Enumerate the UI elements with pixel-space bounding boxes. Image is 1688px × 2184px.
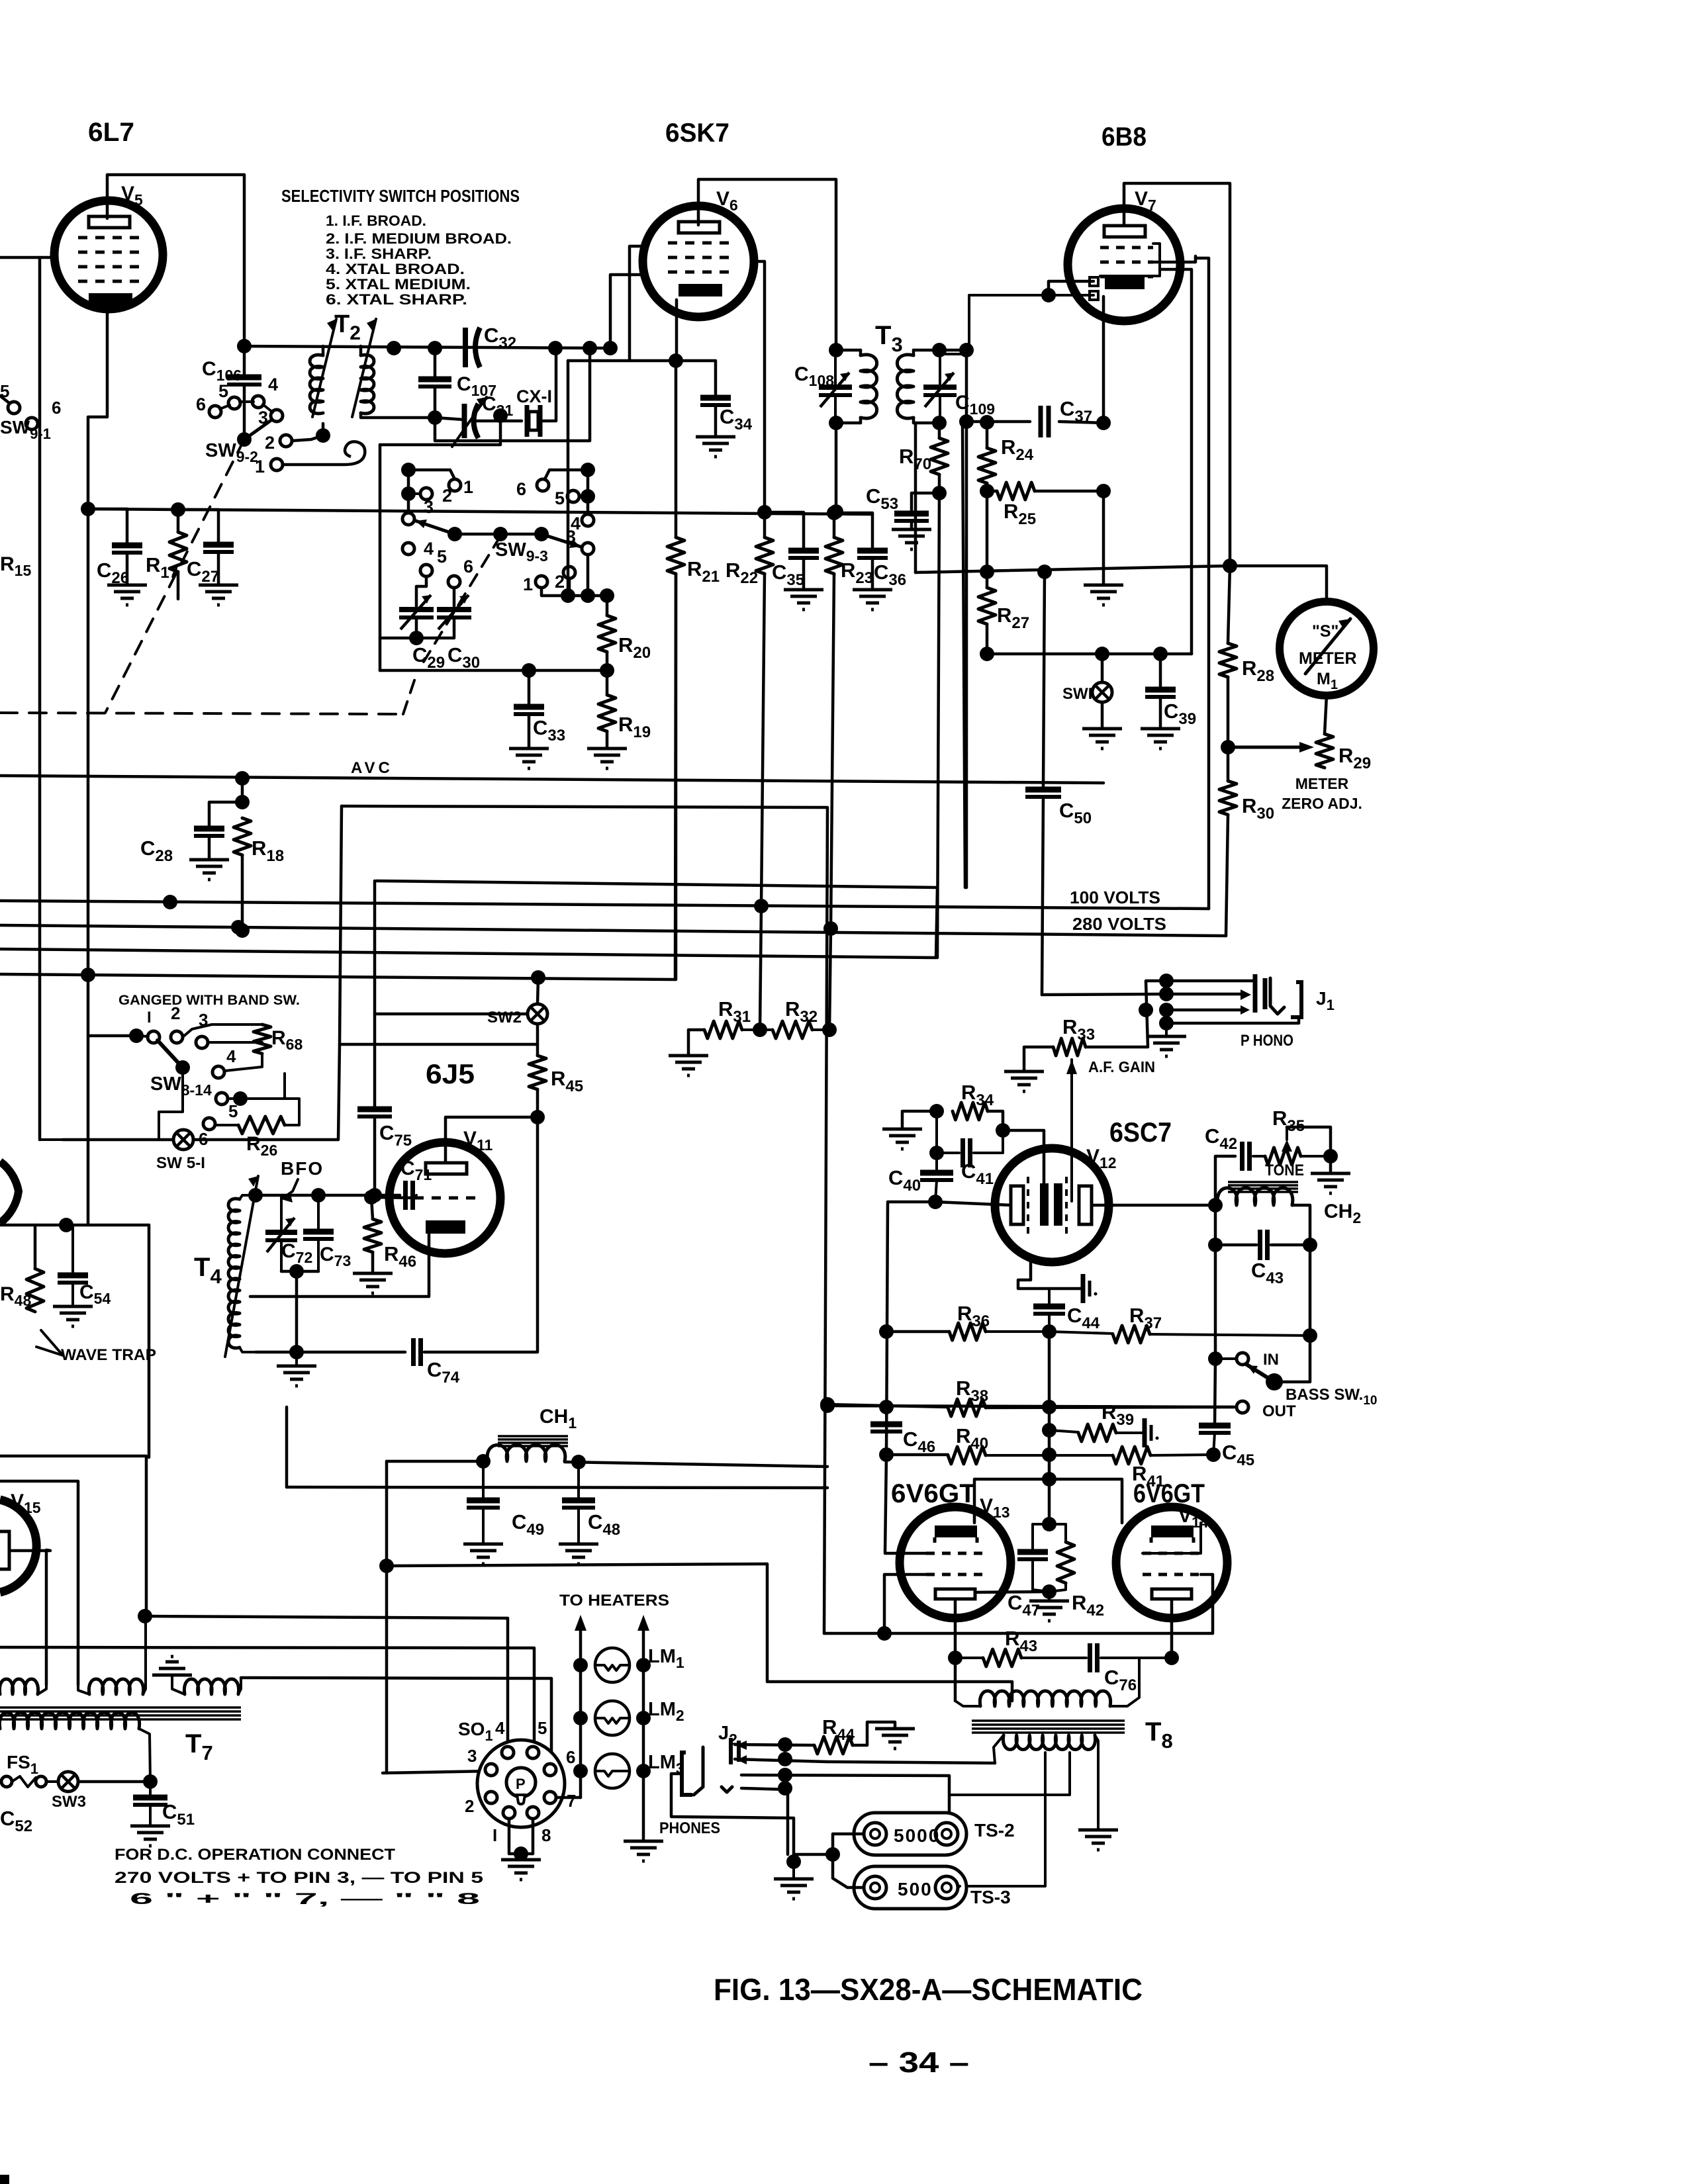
wire screens bus (824, 1574, 1213, 1633)
svg-text:ZERO ADJ.: ZERO ADJ. (1282, 795, 1362, 812)
SW9-3 armature right (541, 534, 581, 547)
svg-text:5: 5 (437, 547, 447, 567)
node T3 secondary top (932, 343, 947, 357)
SW9-3 armature left (416, 521, 455, 534)
V7 diode plates (1090, 277, 1098, 286)
wire SW5-1 right to B+ riser (193, 1044, 538, 1140)
wire V5 cathode down (88, 309, 107, 509)
wire R33 right to phono (1086, 981, 1166, 1047)
choke CH1 core (498, 1435, 568, 1437)
choke CH2 core (1228, 1181, 1298, 1183)
switch SW9-3 L contact 2 (420, 488, 432, 500)
wire SO1 pin1 pin8 to ground (509, 1819, 533, 1854)
svg-text:6: 6 (52, 398, 61, 418)
node C46 bottom (879, 1447, 894, 1462)
wire R17 bottom (177, 572, 180, 599)
ground T7 winding3 (152, 1657, 192, 1675)
capacitor C40 (929, 1146, 944, 1160)
svg-text:2: 2 (265, 433, 275, 453)
meter needle (1305, 619, 1350, 674)
wire R22 bottom through 100V bus to R31 R32 node (760, 574, 765, 1030)
terminal strip TS-2 (854, 1813, 966, 1855)
svg-text:270 VOLTS + TO PIN 3: 270 VOLTS + TO PIN 3, — TO PIN 5 (115, 1869, 483, 1887)
wire R21 top lead (675, 361, 678, 537)
terminal strip TS-3 (854, 1866, 966, 1909)
wire R68 top to contact2 (183, 1024, 262, 1037)
switch SW9-3 L contact 1 (449, 479, 461, 491)
lamp LM2 (573, 1711, 588, 1725)
wire CH1 to B+ riser (565, 1462, 827, 1467)
resistor R35 tone pot (1253, 1155, 1265, 1158)
lamp LM3 (573, 1764, 588, 1778)
switch SW9-2 contact 2 (280, 435, 292, 447)
ground C49 (463, 1544, 503, 1564)
node C31 left (428, 410, 442, 425)
transformer T7 primary coil (0, 1712, 140, 1729)
capacitor C27 (203, 542, 234, 548)
wire mystery y2247 (287, 1487, 827, 1488)
capacitor C49 (482, 1461, 485, 1498)
wire R46 bottom (371, 1252, 375, 1273)
wire to TS-3 left (833, 1854, 864, 1888)
wire R35 wiper to end (1287, 1127, 1331, 1156)
dashed gang line SW9-3 (424, 536, 500, 662)
wire C75 riser (373, 881, 377, 1107)
svg-text:BFO: BFO (281, 1158, 324, 1179)
phono jack J1 lines (1166, 979, 1255, 983)
wire T4 bottom line (256, 1351, 405, 1354)
dashed gang line SW9-2 (105, 439, 244, 713)
resistor R25 (997, 482, 1035, 500)
wire R70 bottom (938, 475, 941, 493)
ground C51 (130, 1826, 170, 1846)
node R27 bottom (980, 647, 994, 661)
wire C34 to ground (714, 405, 718, 437)
wire V13 cathode to C47 (975, 1592, 1049, 1592)
svg-text:TS-3: TS-3 (970, 1887, 1011, 1907)
wire T8 primary right (1110, 1658, 1139, 1706)
svg-text:1: 1 (463, 477, 473, 497)
node C47 top (1042, 1517, 1056, 1531)
node C39 (1153, 647, 1168, 661)
wire C31 lead left (435, 418, 463, 420)
svg-text:CX-I: CX-I (516, 387, 552, 406)
wire V11 cathode down (250, 1234, 429, 1297)
wire V12 left grid from R34 node (1003, 1130, 1044, 1183)
ground heater (624, 1841, 663, 1861)
switch SW9-3 R contact 4 (582, 514, 594, 526)
node R43 left (948, 1651, 962, 1665)
wire B+ riser x514 (340, 806, 342, 1044)
svg-text:3. I.F. SHARP.: 3. I.F. SHARP. (326, 246, 432, 262)
node R32 right (822, 1023, 837, 1037)
wire V12 left plate to C40 line (935, 1202, 1011, 1205)
switch SW9-3 L contact 4 (402, 543, 414, 555)
ground C47 R42 (1029, 1601, 1069, 1621)
wire V6 cathode down (675, 300, 679, 361)
wire SW8-14 box to SW5-1 (159, 1068, 183, 1140)
wire V6 suppressor to R21 (630, 246, 676, 361)
ground C26 (107, 585, 147, 605)
ground C36 (853, 590, 892, 610)
wire bus4 y1474 (0, 574, 676, 979)
wire R17 top (177, 510, 180, 532)
tube V11 (6J5) triode (389, 1142, 500, 1253)
wire x1460 down to bus (965, 350, 968, 887)
ground phono (1147, 1036, 1186, 1056)
wire T3 sec bottom to R70 (938, 423, 941, 438)
node R35 right (1323, 1149, 1338, 1163)
ground C33 (509, 749, 549, 768)
node R22 top (757, 505, 772, 520)
variable capacitor C29 (399, 607, 434, 612)
node C43 right (1303, 1238, 1317, 1252)
node C33 top (522, 663, 536, 678)
wire T2 secondary bottom to C31 line (361, 413, 435, 418)
wire C50 bottom (1042, 797, 1043, 995)
wire V7 screen to 100V bus riser (1153, 256, 1196, 262)
svg-text:2: 2 (442, 486, 452, 506)
wire OUT line (827, 1406, 1234, 1407)
wire C30 bottom (416, 617, 454, 638)
heater line right (642, 1631, 645, 1841)
svg-text:1. I.F. BROAD.: 1. I.F. BROAD. (326, 212, 426, 229)
capacitor C37 (1039, 406, 1043, 437)
switch SW9-1 contact 6 (26, 418, 38, 430)
ground C54 (53, 1306, 93, 1326)
wire plate feed split (974, 1479, 1049, 1523)
switch SW9-3 R contact 2 (563, 567, 575, 578)
wire V6 plate cap up and right to T3 (698, 179, 836, 350)
wire bus y1331 (C75 B+) (377, 881, 937, 887)
svg-text:6 " + ": 6 " + " " 7, — " " 8 (130, 1890, 480, 1908)
T3 primary loop (836, 349, 861, 352)
wire R26 right end up (285, 1099, 299, 1125)
wire SW5-1 left (63, 1138, 173, 1142)
node C37 right (1096, 416, 1111, 430)
node V12 plate out (1208, 1198, 1223, 1212)
svg-text:4: 4 (495, 1718, 505, 1738)
capacitor C41 (935, 1111, 938, 1153)
wire V15 box inner (0, 1481, 78, 1685)
switch SW8-14 contact 3 (196, 1036, 208, 1048)
capacitor C107 (434, 348, 437, 377)
svg-text:SWI: SWI (1062, 685, 1092, 703)
wire bus3 y1434 (0, 887, 937, 958)
wire C31 to CX-1 (475, 420, 522, 423)
transformer T3 primary coil (861, 355, 877, 418)
lamp SW2 (528, 1004, 547, 1024)
resistor R27 (978, 588, 996, 624)
wire rectifier out to T8 region (387, 1564, 1012, 1701)
node SW9-3 L top (401, 463, 416, 477)
transformer T7 core (0, 1706, 241, 1709)
resistor R17 (169, 532, 187, 572)
SW9-2 armature (237, 432, 252, 447)
node phones ground (786, 1854, 801, 1869)
capacitor C43 (1258, 1230, 1262, 1260)
capacitor C51 (149, 1782, 152, 1796)
wire CH2 right (1292, 1205, 1310, 1249)
node C49 (476, 1454, 491, 1469)
switch SW9-1 contact 5 (8, 402, 20, 414)
resistor R20 (598, 615, 616, 652)
wire to C34 (677, 361, 716, 396)
svg-text:OUT: OUT (1262, 1402, 1296, 1420)
switch SW9-3 L contact 3 (402, 513, 414, 525)
wire V6 grid riser (610, 275, 643, 348)
wire C53 node down to bus3 (937, 493, 939, 958)
wire T3 primary bottom down (835, 423, 838, 512)
wire SW2 left stub (375, 1013, 528, 1016)
wire contact5L to C29 (416, 576, 426, 606)
svg-text:TONE: TONE (1265, 1161, 1304, 1179)
svg-text:500: 500 (898, 1879, 933, 1899)
wire R33 left to ground (1024, 1047, 1053, 1071)
transformer T2 secondary coil (361, 355, 374, 414)
wire V7 cathode down to C37 line (1102, 296, 1105, 423)
wire to TS-2 left (833, 1834, 864, 1854)
wire R25 to cathode line (1035, 490, 1103, 493)
V15 plate rect (0, 1531, 9, 1569)
wire y639 tap down to R27 wire (914, 423, 917, 572)
svg-text:SW3: SW3 (52, 1793, 86, 1811)
capacitor C47 (1017, 1549, 1048, 1555)
transformer T7 secondary winding 2 (78, 1685, 89, 1694)
node SW2 tap (531, 970, 545, 985)
wire V5 plate cap to top rail (107, 175, 244, 346)
wave trap pointer (36, 1330, 63, 1355)
wire c3R down (586, 555, 590, 596)
wire R68 bottom to contact4 (225, 1054, 262, 1071)
wire V6 cathode bus down to SW9-3 (567, 361, 570, 596)
switch SW9-3 R contact 5 (567, 490, 579, 502)
wire SW8-14 feed from left (88, 1034, 136, 1038)
wire to contact1L (408, 470, 455, 479)
wire V7 grid leak riser x1800 (1160, 269, 1192, 654)
chassis V12 cathode (1081, 1274, 1086, 1303)
svg-text:FOR D.C. OPERATION CONNE: FOR D.C. OPERATION CONNECT (115, 1846, 395, 1864)
wire bass arm to R41 right (1274, 1336, 1310, 1382)
wire 280V bus (0, 925, 1226, 936)
resistor R42 (1057, 1542, 1074, 1583)
svg-text:IN: IN (1263, 1351, 1279, 1369)
wire down to T4 bottom (295, 1271, 299, 1352)
capacitor C35 (788, 548, 819, 554)
dashed gang bus (0, 713, 403, 714)
wire box from contact2 region (380, 416, 500, 445)
wire R18 bottom to 280V (241, 855, 244, 931)
wire V12 right plate out (1092, 1204, 1215, 1207)
svg-text:GANGED WITH BAND SW.: GANGED WITH BAND SW. (118, 993, 300, 1008)
node R17 top (171, 502, 185, 517)
wire T2 top rail (244, 346, 610, 348)
capacitor C44 (1048, 1316, 1051, 1332)
wire V6 control grid right down (753, 261, 765, 512)
node R20 bottom (600, 663, 614, 678)
svg-text:2: 2 (171, 1003, 180, 1023)
node C45 bottom (1206, 1447, 1221, 1462)
wire R24 node down to R27 (986, 491, 989, 572)
switch SW9-2 contact 1 (271, 459, 283, 471)
node C44 (1042, 1324, 1056, 1339)
tube V5 (6L7) (54, 201, 163, 309)
wire pin3 line (383, 1771, 491, 1773)
capacitor C54 (71, 1225, 74, 1273)
node C107 top (428, 341, 442, 355)
lamp SW1 (1092, 682, 1112, 702)
svg-text:WAVE TRAP: WAVE TRAP (61, 1346, 156, 1364)
node 280V x360 (231, 920, 246, 934)
svg-text:6J5: 6J5 (426, 1058, 475, 1089)
svg-text:100 VOLTS: 100 VOLTS (1070, 887, 1160, 907)
wire R30 top (1227, 747, 1230, 781)
switch SW9-3 L contact 6 (448, 576, 460, 588)
svg-text:A.F. GAIN: A.F. GAIN (1088, 1058, 1155, 1075)
wire B+ bus y1218 (342, 806, 827, 1633)
wire V11 grid left (371, 1197, 414, 1198)
wire V7 cathode line to ground (1102, 491, 1105, 585)
node C47 bottom (1042, 1584, 1056, 1599)
switch SW9-2 contact 5 (228, 397, 240, 409)
tube V12 (6SC7) (995, 1148, 1109, 1262)
transformer T8 secondary coil (994, 1735, 1004, 1763)
transformer T7 secondary winding 1 (0, 1679, 38, 1694)
node SW9-3 R top (581, 463, 595, 477)
resistor R44 (814, 1737, 853, 1754)
svg-text:3: 3 (467, 1746, 477, 1766)
svg-text:– 34 –: – 34 – (868, 2046, 969, 2079)
A.F. GAIN wiper arrow (1070, 1077, 1073, 1201)
capacitor C42 (1240, 1142, 1244, 1171)
svg-text:SW 5-I: SW 5-I (156, 1154, 205, 1172)
dashed diagonal to box (403, 672, 417, 714)
wire R28 bottom (1227, 677, 1230, 747)
wire left vertical A (38, 257, 42, 1140)
svg-text:PHONES: PHONES (659, 1819, 720, 1837)
node C40 bottom (928, 1195, 943, 1209)
BFO pointer squiggle (281, 1179, 298, 1199)
ground phones (774, 1879, 814, 1899)
ground R35 (1311, 1173, 1350, 1193)
node SW8-14 feed (129, 1028, 144, 1043)
wire R19 top (606, 670, 609, 695)
resistor R38 (948, 1399, 986, 1416)
switch SW9-3 R contact 3 (582, 543, 594, 555)
resistor R31 (704, 1021, 742, 1038)
transformer T4 coil (228, 1199, 240, 1348)
wire SO1 pin7 to heater line (556, 1796, 581, 1799)
node 280V R32 riser (823, 921, 838, 936)
svg-text:METER: METER (1299, 649, 1357, 668)
bass switch armature (1246, 1364, 1274, 1382)
node R28 R30 (1221, 740, 1235, 754)
ground R33 (1004, 1071, 1044, 1091)
svg-text:5: 5 (538, 1718, 547, 1738)
wire winding3 to SO1 pin6 (241, 1678, 551, 1764)
wire R46 top (371, 1197, 373, 1219)
jack J1 body (1270, 978, 1284, 1014)
node bass in left (1208, 1351, 1223, 1366)
wire R34 left ground stub (902, 1111, 937, 1129)
node R39 left (1042, 1423, 1056, 1437)
resistor R68 (254, 1024, 271, 1054)
capacitor C26 (112, 543, 142, 549)
resistor R70 (931, 438, 948, 475)
wire SW9-3 armature bus (455, 533, 541, 536)
node meter plate rail (1223, 559, 1237, 573)
wire R28 top (1228, 566, 1230, 643)
wire SW1 C39 line (987, 653, 1192, 656)
wire AVC bus (0, 776, 1103, 783)
wire meter bottom to R29 (1325, 696, 1327, 734)
node V11 plate B+ (530, 1110, 545, 1124)
switch SW8-14 contact 6 (203, 1118, 215, 1130)
wire V15 box outer (0, 1456, 146, 1616)
svg-text:SW2: SW2 (487, 1009, 522, 1026)
svg-text:I: I (147, 1009, 152, 1026)
resistor R45 (529, 1056, 546, 1089)
wire V5 grid to left edge (0, 256, 56, 259)
jack J2 lines (778, 1737, 792, 1752)
wire heater line to SO1 pin4 (145, 1616, 508, 1741)
node phono big (1139, 1003, 1153, 1017)
T4 outline bottom (240, 1347, 256, 1352)
jack J1 contacts (1255, 974, 1265, 1013)
wire BFO top line (256, 1194, 400, 1197)
ground T4 (277, 1366, 316, 1386)
wire C107 down (434, 387, 437, 418)
svg-text:5000: 5000 (894, 1825, 940, 1846)
resistor R33 (A.F. gain pot) (1053, 1038, 1086, 1056)
lamp switch SW3 (58, 1772, 78, 1792)
wire V7 diode plates to T3 secondary (1049, 281, 1094, 295)
capacitor C76 (1088, 1643, 1092, 1672)
wire C29 to box (380, 637, 416, 640)
node R31 R32 (753, 1023, 767, 1037)
node T3 primary bottom (829, 416, 843, 430)
T2 tuning arrow primary (312, 319, 336, 417)
wire T3 sec top to V7 riser (939, 349, 966, 352)
svg-text:280 VOLTS: 280 VOLTS (1072, 914, 1166, 934)
node V6 cathode (669, 353, 683, 368)
node C28 R18 (235, 795, 250, 809)
resistor R48 (26, 1269, 44, 1312)
wire J2 sleeve to ground run (671, 1774, 794, 1862)
node heater line T7 (138, 1609, 152, 1623)
node contact5 (233, 1091, 248, 1106)
node C50 top (1037, 565, 1052, 579)
resistor R37 (1113, 1326, 1150, 1343)
ground SO1 (501, 1860, 541, 1880)
V7 grid box outline (1100, 244, 1160, 276)
wire to C28 (209, 802, 242, 827)
svg-text:"S": "S" (1312, 622, 1338, 641)
wire SW9-1 stub (0, 396, 9, 403)
svg-text:8: 8 (541, 1825, 551, 1845)
wire SW3 to C51 node (78, 1780, 150, 1784)
ground C34 (696, 437, 735, 457)
svg-text:6: 6 (196, 394, 206, 414)
wire box left vertical (selectivity) (379, 445, 382, 670)
variable capacitor C108 (819, 385, 852, 390)
wire TS-3 right to T8 tap (958, 1886, 960, 1888)
svg-text:6: 6 (463, 557, 473, 576)
wire C33 to ground (528, 714, 531, 749)
transformer T8 core (972, 1719, 1125, 1722)
ground SW1 (1082, 729, 1122, 749)
node R34 C41 (996, 1123, 1010, 1138)
